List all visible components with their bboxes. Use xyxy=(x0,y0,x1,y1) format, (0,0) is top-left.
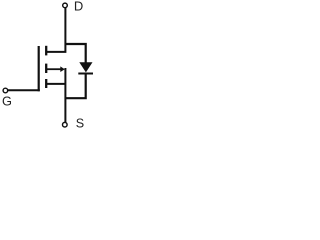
svg-text:D: D xyxy=(74,0,83,14)
diode D1 triangle xyxy=(79,62,92,72)
wire drain vertical and stub to channel xyxy=(46,8,65,52)
transistor Q1 gate bar xyxy=(38,46,40,91)
transistor Q1 channel segment middle xyxy=(45,64,47,73)
svg-text:G: G xyxy=(2,94,12,109)
svg-text:S: S xyxy=(76,117,84,131)
transistor Q1 channel segment top xyxy=(45,46,47,56)
wire diode return to source xyxy=(65,75,86,99)
wire body stub with arrow xyxy=(47,68,61,70)
transistor Q1 channel segment bottom xyxy=(45,79,47,88)
arrowhead body arrow xyxy=(60,66,65,72)
terminal G circle xyxy=(3,88,8,93)
wire gate horizontal xyxy=(8,89,40,91)
wire source stub xyxy=(47,83,65,85)
terminal S circle xyxy=(63,122,68,127)
diode D1 cathode bar xyxy=(78,73,93,75)
wire source vertical xyxy=(64,68,66,122)
wire branch to body diode xyxy=(65,44,86,63)
terminal D circle xyxy=(63,3,68,8)
